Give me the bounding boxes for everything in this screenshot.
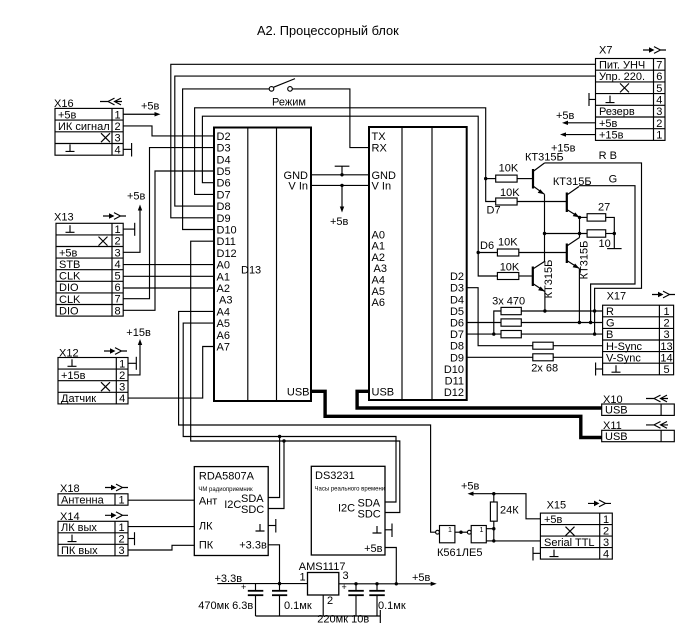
- svg-text:Часы реального времени: Часы реального времени: [315, 487, 386, 493]
- transistor Q2 KT315B: [553, 176, 592, 217]
- connector X14: [58, 511, 128, 557]
- resistor 68 #2: [533, 354, 553, 361]
- svg-text:1: 1: [119, 358, 125, 370]
- svg-text:D7: D7: [450, 329, 464, 341]
- resistor 10: [587, 230, 606, 237]
- wire DS3231 +5v: [385, 548, 396, 584]
- transistor Q1 KT315B: [525, 152, 564, 195]
- svg-text:A3: A3: [219, 295, 232, 307]
- svg-text:D2: D2: [450, 271, 464, 283]
- wire D9 to V-Sync: [467, 356, 533, 358]
- wire Q1 emitter chain: [544, 194, 546, 261]
- svg-text:ИК сигнал: ИК сигнал: [58, 121, 110, 133]
- svg-text:D5: D5: [217, 166, 231, 178]
- svg-text:1: 1: [118, 495, 124, 507]
- svg-text:A2: A2: [372, 252, 385, 264]
- svg-text:2: 2: [663, 318, 669, 330]
- connector X10: [602, 394, 675, 417]
- wire CLK to A1: [123, 275, 214, 277]
- wire B row (D7): [467, 333, 501, 335]
- svg-text:USB: USB: [605, 431, 628, 443]
- wire A4 to gate input: [179, 311, 436, 532]
- svg-text:Резерв: Резерв: [599, 106, 635, 118]
- svg-text:USB: USB: [372, 386, 395, 398]
- wire RB line: [545, 163, 642, 334]
- svg-text:3: 3: [663, 329, 669, 341]
- wire CLK2 to D3: [123, 148, 214, 299]
- capacitor 470uF: [198, 582, 263, 616]
- svg-text:X17: X17: [607, 290, 627, 302]
- wire GND between blocks: [311, 174, 369, 176]
- svg-text:D2: D2: [217, 131, 231, 143]
- svg-text:A6: A6: [372, 297, 385, 309]
- ground at X17 pin5: [596, 368, 603, 370]
- svg-text:A1: A1: [217, 271, 230, 283]
- wire AMS pin2: [322, 595, 324, 616]
- connector X17: [603, 290, 675, 376]
- ground at X15 pin4: [533, 552, 540, 554]
- node +5v at gates: [472, 494, 541, 519]
- wire gate2 feedback stubs: [486, 528, 494, 530]
- wire V In between blocks: [311, 184, 369, 186]
- svg-text:D4: D4: [450, 294, 464, 306]
- svg-text:H-Sync: H-Sync: [606, 341, 643, 353]
- svg-text:B: B: [606, 329, 613, 341]
- svg-text:+15в: +15в: [61, 370, 86, 382]
- svg-text:0.1мк: 0.1мк: [284, 600, 312, 612]
- wire PK: [128, 545, 194, 550]
- wire +5v rail: [339, 583, 433, 585]
- wire DIO to A2: [123, 287, 214, 289]
- svg-text:A6: A6: [217, 330, 230, 342]
- svg-text:R: R: [606, 306, 614, 318]
- svg-text:D12: D12: [217, 248, 237, 260]
- svg-text:D7: D7: [487, 205, 501, 217]
- switch Режим: [269, 87, 274, 92]
- resistor 68 #1: [533, 342, 553, 349]
- svg-text:4: 4: [115, 259, 121, 271]
- svg-text:D5: D5: [450, 306, 464, 318]
- svg-text:V In: V In: [372, 180, 392, 192]
- wire D10 to switch: [183, 89, 270, 230]
- wire R row: [521, 310, 602, 312]
- svg-text:ПК вых: ПК вых: [61, 545, 98, 557]
- svg-text:+5в: +5в: [544, 514, 563, 526]
- svg-text:AMS1117: AMS1117: [299, 561, 346, 573]
- svg-text:A7: A7: [217, 342, 230, 354]
- svg-text:7: 7: [656, 59, 662, 71]
- svg-text:+15в: +15в: [126, 327, 151, 339]
- svg-text:Пит. УНЧ: Пит. УНЧ: [599, 59, 645, 71]
- capacitor 220uF: [317, 582, 369, 626]
- wire D3 to H-Sync: [467, 288, 533, 346]
- svg-text:+5в: +5в: [599, 118, 618, 130]
- svg-text:3: 3: [118, 545, 124, 557]
- connector X7: [596, 45, 667, 142]
- resistor 10K #2: [496, 198, 517, 205]
- wire D11 SDC bus: [191, 241, 400, 512]
- node +5v at X16 pin1: [123, 113, 156, 115]
- svg-text:+: +: [342, 582, 347, 592]
- svg-text:+5в: +5в: [412, 572, 431, 584]
- transistor Q4 KT315B: [567, 234, 591, 280]
- wire antenna: [128, 499, 194, 501]
- connector X13: [54, 212, 126, 318]
- svg-text:SDC: SDC: [358, 509, 381, 521]
- connector X16: [54, 98, 123, 156]
- svg-text:2: 2: [115, 236, 121, 248]
- node +5v at X7 pin2: [566, 122, 596, 124]
- svg-text:Ант: Ант: [199, 496, 217, 508]
- ground: [341, 166, 343, 175]
- ground at DS3231: [385, 529, 392, 531]
- svg-text:10K: 10K: [499, 163, 519, 175]
- svg-text:1: 1: [118, 522, 124, 534]
- svg-text:2: 2: [119, 370, 125, 382]
- svg-text:D8: D8: [450, 341, 464, 353]
- svg-text:2: 2: [115, 121, 121, 133]
- svg-text:DS3231: DS3231: [315, 470, 355, 482]
- resistor 24K pullup: [493, 494, 495, 541]
- svg-text:10K: 10K: [500, 261, 520, 273]
- wire ground rail: [256, 615, 381, 617]
- svg-text:A3: A3: [374, 263, 387, 275]
- wire STB to A0: [123, 264, 214, 266]
- svg-text:X13: X13: [54, 212, 74, 224]
- svg-text:К561ЛЕ5: К561ЛЕ5: [437, 547, 482, 559]
- svg-text:DIO: DIO: [59, 282, 79, 294]
- svg-text:ЛК вых: ЛК вых: [61, 522, 97, 534]
- svg-text:1: 1: [480, 527, 484, 534]
- svg-text:DIO: DIO: [59, 305, 79, 317]
- svg-text:+5в: +5в: [59, 247, 78, 259]
- svg-text:1: 1: [448, 527, 452, 534]
- svg-text:3: 3: [119, 382, 125, 394]
- svg-text:D9: D9: [450, 352, 464, 364]
- node +15v at X7 pin1: [564, 134, 596, 136]
- wire RDA +3.3v: [268, 545, 279, 584]
- wire A5 SDA bus: [183, 323, 396, 502]
- svg-text:7: 7: [115, 294, 121, 306]
- svg-text:D13: D13: [241, 265, 261, 277]
- svg-text:+15в: +15в: [599, 130, 624, 142]
- svg-text:CLK: CLK: [59, 271, 81, 283]
- svg-text:+5в: +5в: [364, 543, 383, 555]
- svg-text:A0: A0: [217, 260, 230, 272]
- svg-text:X15: X15: [547, 500, 567, 512]
- svg-text:ПК: ПК: [199, 540, 214, 552]
- svg-text:RDA5807A: RDA5807A: [199, 470, 255, 482]
- svg-text:Датчик: Датчик: [61, 393, 96, 405]
- svg-text:3: 3: [115, 133, 121, 145]
- wire D6 net to base resistors: [202, 116, 497, 276]
- svg-text:G: G: [609, 173, 618, 185]
- svg-text:Упр. 220.: Упр. 220.: [599, 71, 645, 83]
- svg-text:USB: USB: [287, 386, 310, 398]
- wire SDA drop to RDA: [268, 437, 279, 498]
- svg-text:1: 1: [603, 514, 609, 526]
- svg-text:A1: A1: [372, 241, 385, 253]
- ground at X12 pin1: [128, 362, 136, 364]
- svg-text:3: 3: [115, 247, 121, 259]
- svg-text:5: 5: [115, 271, 121, 283]
- svg-text:ЛК: ЛК: [199, 521, 213, 533]
- wire switch to RX: [292, 89, 369, 148]
- node +5v at V In: [341, 185, 343, 208]
- svg-text:+5в: +5в: [141, 101, 160, 113]
- resistor 10K #4: [497, 273, 518, 280]
- ground at X14 pin2: [128, 538, 135, 540]
- svg-text:3x 470: 3x 470: [492, 295, 525, 307]
- svg-text:D6: D6: [450, 318, 464, 330]
- svg-text:2: 2: [327, 595, 333, 607]
- wire +3.3v rail: [217, 583, 307, 585]
- svg-text:D11: D11: [217, 236, 236, 248]
- thick USB wire block1 to X11: [311, 391, 602, 437]
- logic gate U1a: [436, 526, 455, 543]
- svg-text:D10: D10: [217, 225, 237, 237]
- svg-text:D6: D6: [480, 240, 494, 252]
- svg-text:+5в: +5в: [58, 109, 77, 121]
- svg-text:D11: D11: [445, 376, 464, 388]
- svg-text:+: +: [241, 582, 246, 592]
- svg-text:КТ315Б: КТ315Б: [579, 241, 591, 280]
- svg-text:SDC: SDC: [241, 504, 264, 516]
- svg-text:+5в: +5в: [461, 480, 480, 492]
- svg-text:6: 6: [656, 71, 662, 83]
- resistor 27: [587, 214, 606, 221]
- svg-text:10K: 10K: [500, 187, 520, 199]
- ground at X16 pin4: [123, 148, 131, 150]
- wire 470 link: [494, 311, 501, 334]
- svg-text:SDA: SDA: [241, 493, 264, 505]
- svg-text:3: 3: [603, 537, 609, 549]
- svg-text:1: 1: [300, 572, 306, 584]
- svg-text:4: 4: [656, 95, 662, 107]
- capacitor 0.1uF #1: [272, 584, 312, 616]
- svg-text:V-Sync: V-Sync: [606, 352, 641, 364]
- svg-text:220мк 10в: 220мк 10в: [317, 614, 369, 626]
- wire Q2 emitter to junction: [580, 216, 588, 218]
- svg-text:D4: D4: [217, 154, 231, 166]
- svg-text:A4: A4: [217, 306, 230, 318]
- svg-text:X7: X7: [599, 45, 612, 57]
- svg-text:RX: RX: [372, 143, 388, 155]
- svg-text:D6: D6: [217, 178, 231, 190]
- svg-text:4: 4: [115, 144, 121, 156]
- svg-text:1: 1: [656, 130, 662, 142]
- svg-text:D9: D9: [217, 213, 231, 225]
- svg-text:I2C: I2C: [338, 503, 355, 515]
- svg-text:+5в: +5в: [127, 191, 146, 203]
- svg-text:STB: STB: [59, 259, 80, 271]
- svg-text:+5в: +5в: [330, 216, 349, 228]
- svg-text:6: 6: [115, 282, 121, 294]
- FM radio block RDA5807A: [194, 467, 268, 556]
- wire D7 net to base resistors: [195, 108, 496, 202]
- capacitor 0.1uF #2: [369, 582, 406, 616]
- svg-text:1: 1: [115, 224, 121, 236]
- ground at X13 pin1: [123, 228, 135, 230]
- ground at RDA: [268, 525, 276, 527]
- svg-text:D7: D7: [217, 189, 231, 201]
- wire Q4 emitter to G row: [578, 269, 580, 323]
- svg-text:3: 3: [343, 570, 349, 582]
- svg-text:3: 3: [656, 106, 662, 118]
- svg-text:Антенна: Антенна: [61, 495, 105, 507]
- svg-text:10K: 10K: [498, 236, 518, 248]
- svg-text:D3: D3: [217, 143, 231, 155]
- svg-text:D12: D12: [444, 387, 464, 399]
- svg-text:5: 5: [656, 83, 662, 95]
- svg-text:D3: D3: [450, 283, 464, 295]
- MCU block 2 (right): [369, 127, 467, 400]
- wire sensor to A7: [128, 347, 214, 399]
- svg-text:USB: USB: [605, 405, 628, 417]
- svg-text:2: 2: [603, 525, 609, 537]
- svg-text:8: 8: [115, 305, 121, 317]
- node +5v at X13 pin3: [123, 209, 140, 253]
- svg-text:G: G: [606, 318, 615, 330]
- thick USB wire block2 to X10: [357, 391, 602, 408]
- connector X15: [540, 500, 612, 561]
- transistor Q3 KT315B: [533, 260, 555, 299]
- svg-text:14: 14: [660, 352, 672, 364]
- MCU block D13: [214, 128, 311, 402]
- svg-text:2: 2: [118, 534, 124, 546]
- svg-text:A5: A5: [372, 286, 385, 298]
- svg-text:2x 68: 2x 68: [531, 363, 558, 375]
- svg-text:КТ315Б: КТ315Б: [525, 152, 564, 164]
- svg-text:D10: D10: [444, 364, 464, 376]
- svg-text:R B: R B: [599, 150, 617, 162]
- svg-text:D8: D8: [217, 201, 231, 213]
- svg-text:0.1мк: 0.1мк: [378, 600, 406, 612]
- ground below 10: [607, 248, 622, 250]
- wire gate1 out: [455, 531, 467, 533]
- svg-text:5: 5: [663, 364, 669, 376]
- svg-text:1: 1: [115, 109, 121, 121]
- svg-text:A0: A0: [372, 229, 385, 241]
- svg-text:+3.3в: +3.3в: [239, 540, 267, 552]
- svg-text:CLK: CLK: [59, 294, 81, 306]
- svg-text:A5: A5: [217, 318, 230, 330]
- wire LK: [128, 526, 194, 528]
- resistor 10K #3: [497, 249, 518, 256]
- connector X11: [602, 420, 675, 443]
- svg-text:4: 4: [119, 393, 125, 405]
- connector X18: [58, 483, 128, 507]
- ground at rail end: [379, 610, 381, 623]
- svg-text:+3.3в: +3.3в: [215, 573, 243, 585]
- wire D8 to X7 pin6: [175, 76, 596, 206]
- RTC block DS3231: [311, 466, 385, 555]
- wire IR signal to D2: [123, 126, 214, 136]
- resistor 10K #1: [496, 175, 517, 182]
- svg-text:SDA: SDA: [358, 497, 381, 509]
- svg-text:А2. Процессорный блок: А2. Процессорный блок: [257, 23, 399, 38]
- ground at X7 pin4: [589, 98, 596, 100]
- svg-text:2: 2: [656, 118, 662, 130]
- svg-text:13: 13: [660, 341, 672, 353]
- svg-text:TX: TX: [372, 131, 387, 143]
- wire SDC drop to RDA: [268, 441, 284, 509]
- svg-text:27: 27: [598, 202, 610, 214]
- node +15v at X12 pin2: [128, 343, 140, 375]
- svg-text:I2C: I2C: [224, 499, 241, 511]
- regulator AMS1117: [299, 561, 349, 607]
- svg-text:X18: X18: [60, 483, 80, 495]
- wire G line: [579, 186, 635, 323]
- svg-text:Serial TTL: Serial TTL: [544, 537, 595, 549]
- svg-text:1: 1: [663, 306, 669, 318]
- wire Q3 emitter to R row: [544, 292, 546, 312]
- logic gate U1b: [467, 526, 486, 543]
- svg-text:24К: 24К: [500, 505, 519, 517]
- svg-text:V In: V In: [288, 180, 308, 192]
- connector X12: [58, 348, 128, 406]
- wire G row (D6): [467, 322, 501, 324]
- svg-text:A2: A2: [217, 283, 230, 295]
- wire D9 to X7 pin7: [171, 64, 596, 217]
- wire DIO2 to D5: [123, 171, 214, 310]
- svg-text:A4: A4: [372, 275, 385, 287]
- svg-text:Режим: Режим: [272, 97, 306, 109]
- svg-text:470мк 6.3в: 470мк 6.3в: [198, 600, 253, 612]
- svg-text:4: 4: [603, 548, 609, 560]
- wire serial to X15: [494, 540, 541, 542]
- svg-text:+5в: +5в: [556, 110, 575, 122]
